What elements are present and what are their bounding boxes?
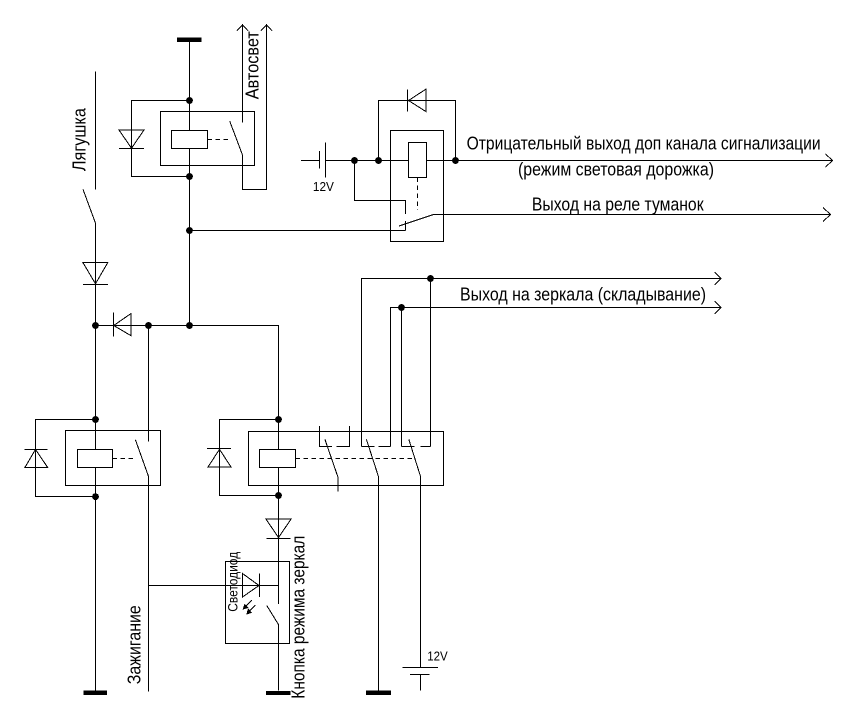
switch blade S1	[325, 439, 338, 491]
label Автосвет	[242, 31, 262, 99]
diode D5	[83, 263, 108, 285]
LED button box	[226, 562, 290, 644]
wire: relay K2 NC feed y230	[190, 230, 406, 232]
switch blade S2	[366, 439, 378, 476]
node O junction	[275, 492, 282, 499]
relay K4 box	[249, 432, 444, 486]
ground chassis S2	[366, 691, 391, 695]
node D junction	[186, 322, 193, 329]
battery 12V plates	[320, 143, 326, 178]
label Светодиод	[224, 552, 240, 612]
switch blade S3	[409, 439, 421, 476]
label fog relay output	[532, 195, 704, 215]
wire: K3 common down (Зажигание)	[148, 476, 150, 691]
ground chassis top	[177, 38, 202, 43]
dashed actuator link K3	[113, 458, 137, 460]
wire: relay K3 coil vertical	[95, 326, 97, 691]
svg-text:Выход на реле туманок: Выход на реле туманок	[532, 195, 704, 215]
switch blade K1	[230, 121, 243, 155]
relay K3 box	[66, 431, 161, 486]
label 12V battery left	[313, 179, 334, 194]
svg-text:Отрицательный выход доп канала: Отрицательный выход доп канала сигнализа…	[467, 134, 821, 154]
node N junction	[275, 416, 282, 423]
wire: diode D4 branch around K4 coil	[220, 420, 279, 496]
arrowhead left riser	[237, 25, 248, 31]
arrowhead negative output	[826, 154, 833, 167]
relay K2 box	[391, 131, 444, 242]
diode D7	[266, 519, 291, 538]
wire: NC contact bend K2	[355, 161, 406, 215]
wire: relay K4 coil vertical	[278, 420, 280, 496]
wire: fog relay output	[434, 214, 831, 216]
node A junction	[186, 97, 193, 104]
dashed actuator link K2	[417, 178, 419, 211]
svg-text:(режим световая дорожка): (режим световая дорожка)	[518, 160, 714, 180]
relay K2 coil	[409, 143, 427, 178]
wire: K1 common to right arrow riser	[243, 25, 267, 190]
wire: mirror output 2	[391, 308, 722, 447]
wire: diode D3 branch around K3 coil	[36, 420, 96, 497]
wire: battery bottom stub	[420, 675, 422, 691]
svg-text:Светодиод: Светодиод	[224, 552, 240, 612]
LED emission arrow 1	[243, 600, 252, 610]
wire: mirror tap 2	[401, 308, 403, 447]
label negative output line2	[518, 160, 714, 180]
ground chassis K3	[84, 690, 107, 695]
relay K4 coil	[260, 450, 296, 468]
diode D1	[119, 130, 144, 149]
wire: diode D2 branch over K2	[379, 101, 456, 161]
LED emission arrow 2	[246, 605, 255, 614]
switch blade K3	[135, 440, 148, 477]
wire: common tick K2	[405, 221, 407, 231]
wire: ground to node A	[189, 42, 191, 101]
wire: ignition feed to K3 fixed contact	[148, 326, 150, 442]
wire: button common to ground	[278, 625, 280, 691]
node G junction	[351, 157, 358, 164]
wire: mirror output 1	[362, 279, 722, 447]
label 12V battery bottom	[427, 649, 448, 664]
wire: S2 common to ground	[378, 477, 380, 691]
wire: S3 common to battery	[420, 477, 422, 668]
wire: mirror tap 1	[430, 279, 432, 447]
svg-text:Автосвет: Автосвет	[242, 31, 262, 99]
switch blade frog	[83, 189, 96, 223]
node L junction	[92, 416, 99, 423]
label mirror output	[460, 284, 706, 304]
wire: K4 coil bottom to LED button	[278, 496, 280, 605]
wire: main vertical through relay K1 coil	[189, 101, 191, 326]
node K junction	[398, 304, 405, 311]
diode D2	[408, 89, 427, 112]
battery 12V left lead	[301, 160, 320, 162]
arrowhead fog output	[823, 208, 831, 222]
wire: frog switch to diode D5	[95, 223, 97, 325]
arrowhead mirror output 1	[715, 272, 722, 285]
dashed actuator link K4	[296, 458, 414, 460]
contact S2 hooks	[362, 446, 391, 448]
wire: frog switch input	[95, 72, 97, 190]
dashed actuator link K1	[208, 139, 232, 141]
diode D3	[25, 449, 48, 467]
arrowhead mirror output 2	[715, 301, 722, 314]
wire: horizontal bus to relay K4 coil	[96, 326, 279, 420]
node M junction	[92, 493, 99, 500]
diode D6	[114, 313, 132, 337]
node E junction	[92, 322, 99, 329]
node H junction	[375, 157, 382, 164]
contact S3 hooks	[402, 446, 431, 448]
switch blade button	[267, 605, 279, 624]
wire: diode D1 branch around K1 coil	[132, 101, 190, 177]
label negative output line1	[467, 134, 821, 154]
relay K3 coil	[78, 450, 113, 468]
contact S1 fixed pair	[320, 426, 350, 447]
relay K1 coil	[172, 131, 208, 149]
node J junction	[427, 275, 434, 282]
wire: main positive rail to negative-output arrow	[326, 160, 833, 162]
svg-text:12V: 12V	[427, 649, 448, 664]
ground chassis button	[266, 691, 290, 695]
node F junction	[145, 322, 152, 329]
svg-text:Выход на зеркала (складывание): Выход на зеркала (складывание)	[460, 284, 706, 304]
label Зажигание	[125, 605, 145, 684]
label Кнопка режима зеркал	[289, 536, 309, 699]
switch blade K2	[399, 215, 434, 227]
wire: LED anode feed	[149, 585, 279, 587]
svg-text:12V: 12V	[313, 179, 334, 194]
wire: left arrow riser to K1 fixed contact	[242, 25, 244, 123]
svg-text:Кнопка режима зеркал: Кнопка режима зеркал	[289, 536, 309, 699]
arrowhead right riser	[261, 25, 272, 31]
diode D4	[207, 449, 231, 468]
label Лягушка	[69, 107, 89, 171]
node I junction	[452, 157, 459, 164]
LED diode	[243, 574, 260, 598]
svg-text:Зажигание: Зажигание	[125, 605, 145, 684]
node C junction	[186, 227, 193, 234]
node B junction	[186, 173, 193, 180]
relay K1 box	[161, 112, 255, 166]
battery 12V bottom plates	[403, 668, 439, 675]
svg-text:Лягушка: Лягушка	[69, 107, 89, 171]
